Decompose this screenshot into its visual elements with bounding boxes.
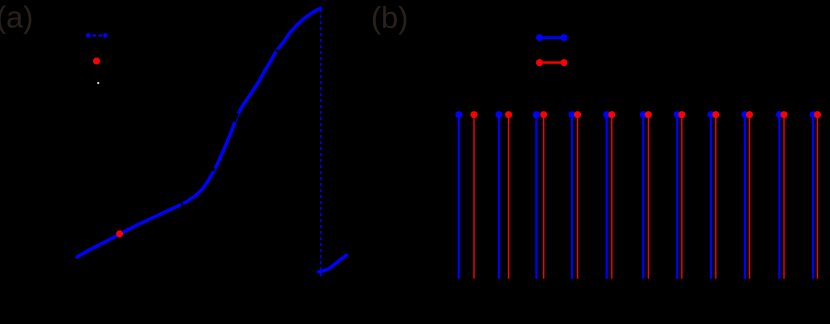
legend (b) entry 2: red line with end dots [536, 59, 568, 66]
red spike stem 3 [540, 111, 547, 279]
red spike stem 2 [505, 111, 512, 279]
legend (b) entry 1: blue line with end dots [536, 34, 568, 41]
reset segment after spike [319, 255, 347, 272]
blue spike stem 5 [603, 111, 610, 279]
legend (a) entry 1: dashed blue line with end markers [86, 33, 108, 38]
red spike stem 6 [645, 111, 652, 279]
blue spike stem 7 [674, 111, 681, 279]
dashed vertical drop line at spike [320, 9, 322, 277]
legend (a) entry 2: red dot [93, 58, 100, 65]
blue spike stem 4 [569, 111, 576, 279]
red spike stem 8 [712, 111, 719, 279]
red spike stem 11 [814, 111, 821, 279]
blue spike stem 9 [741, 111, 748, 279]
blue spike stem 2 [496, 111, 503, 279]
blue spike stem 11 [810, 111, 817, 279]
blue spike stem 8 [708, 111, 715, 279]
blue spike stem 10 [776, 111, 783, 279]
main blue S-curve [77, 8, 321, 257]
red spike stem 7 [678, 111, 685, 279]
legend (a) entry 3: small white dot [97, 82, 99, 84]
small gaps on curve (marker notches) [182, 50, 279, 205]
svg-text:(b): (b) [371, 1, 408, 35]
red spike stem 10 [781, 111, 788, 279]
red spike stem 5 [608, 111, 615, 279]
blue spike stem 3 [533, 111, 540, 279]
blue spike stem 6 [640, 111, 647, 279]
svg-text:(a): (a) [0, 1, 33, 35]
blue spike stem 1 [455, 111, 462, 279]
red spike stem 9 [746, 111, 753, 279]
red spike stem 1 [471, 111, 478, 279]
red spike stem 4 [574, 111, 581, 279]
red operating point on curve [116, 230, 123, 237]
